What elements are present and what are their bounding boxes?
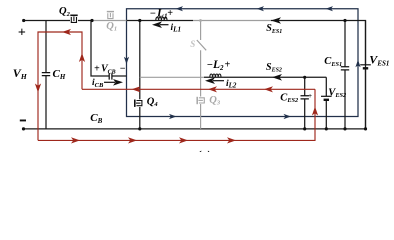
- svg-text:+: +: [18, 26, 26, 41]
- svg-text:SES2: SES2: [266, 62, 282, 74]
- svg-text:CES2: CES2: [280, 92, 298, 104]
- svg-text:iCB: iCB: [92, 78, 104, 89]
- svg-text:(a): (a): [197, 148, 212, 152]
- svg-text:L2: L2: [212, 59, 224, 72]
- svg-text:iL2: iL2: [226, 79, 237, 90]
- svg-text:+: +: [167, 8, 173, 19]
- svg-text:VES1: VES1: [369, 52, 389, 67]
- svg-text:−: −: [150, 9, 156, 20]
- svg-text:Q3: Q3: [209, 95, 221, 107]
- svg-text:L1: L1: [156, 8, 168, 21]
- svg-text:S: S: [190, 39, 195, 49]
- svg-text:VH: VH: [13, 66, 28, 81]
- svg-text:−: −: [120, 64, 126, 75]
- svg-text:Q2: Q2: [59, 6, 71, 18]
- svg-text:+: +: [225, 60, 231, 71]
- svg-text:+: +: [308, 92, 312, 100]
- svg-text:CH: CH: [53, 68, 66, 81]
- svg-text:CB: CB: [90, 112, 102, 125]
- svg-text:+: +: [94, 64, 100, 75]
- svg-text:−: −: [207, 60, 213, 71]
- svg-text:VES2: VES2: [328, 87, 346, 99]
- svg-text:iL1: iL1: [171, 23, 182, 34]
- svg-text:SES1: SES1: [266, 23, 282, 35]
- svg-text:Q4: Q4: [147, 97, 159, 109]
- svg-text:VCB: VCB: [101, 64, 116, 76]
- svg-text:CES1: CES1: [324, 56, 342, 68]
- svg-text:Q1: Q1: [106, 21, 117, 33]
